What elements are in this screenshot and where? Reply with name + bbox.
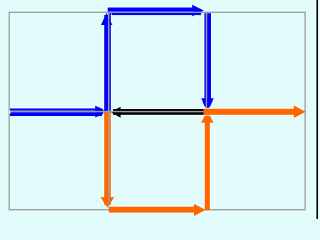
node: orange right-pointing arrowhead at far right border: [294, 105, 306, 118]
white fringe above orange mid-right band: [204, 107, 296, 110]
white fringe right of orange left-vertical thin line: [110, 118, 113, 197]
white fringe below orange bottom band: [109, 212, 194, 215]
white fringe left of orange left-vertical thick line: [102, 112, 105, 197]
white fringe above blue left-entry thin line: [10, 107, 97, 110]
wire: blue left vertical arrow (thick line left of grid): [104, 15, 108, 111]
wire: black shared-edge arrow upper line: [113, 109, 205, 111]
wire: blue top edge arrow (thick line above grid): [108, 8, 193, 12]
white fringe right of orange right-vertical bar: [209, 123, 212, 208]
wire: black shared-edge arrow lower line: [113, 112, 205, 115]
white fringe below orange mid-right band: [204, 114, 296, 117]
white fringe below black lower line: [120, 114, 205, 117]
white fringe right of blue left-vertical thin line: [110, 13, 113, 105]
wire: orange left vertical arrow (thin line right of grid): [109, 112, 111, 205]
node: black left-pointing arrowhead at center junction: [111, 107, 121, 118]
wire: blue right vertical arrow (thick line right of grid): [207, 13, 211, 99]
white fringe above black upper line: [120, 107, 205, 110]
white fringe right of blue right-vertical thick line: [210, 13, 213, 98]
node: blue up-pointing arrowhead at top-left: [101, 13, 113, 25]
wire: blue arrow entering from left along middle line (thin top line): [10, 108, 102, 110]
wire: blue arrow entering from left (thick bottom line): [10, 112, 102, 116]
node: orange right-pointing arrowhead at bottom-right: [194, 204, 206, 216]
node: orange down-pointing arrowhead at bottom-left: [100, 197, 114, 208]
wire: orange right vertical arrow (solid bar): [205, 113, 210, 211]
grid: mid-right vertical gray line (upper segment): [205, 12, 207, 111]
node: blue down-pointing arrowhead at middle-right junction: [201, 98, 213, 110]
white fringe below blue top thin line: [109, 14, 197, 17]
white fringe left of blue right-vertical thin line: [203, 13, 206, 98]
grid: outer gray border rectangle: [9, 12, 305, 209]
white fringe above blue top thick line: [108, 6, 193, 9]
wire: white sliver before right edge bar: [315, 0, 316, 219]
node: blue right-pointing arrowhead at top-right: [192, 5, 204, 17]
white fringe left of blue left-vertical thick line: [102, 25, 105, 111]
grid: middle horizontal gray line: [9, 111, 306, 113]
node: blue right-pointing arrowhead at center junction: [95, 106, 109, 118]
wire: orange arrow exiting right along middle line (solid band): [204, 109, 300, 115]
wire: orange bottom edge arrow (solid band): [109, 207, 195, 213]
wire: orange left vertical arrow (thick line left of grid): [104, 112, 108, 205]
wire: blue right vertical arrow (thin line left of grid): [204, 13, 206, 99]
node: orange up-pointing arrowhead at middle-right junction: [201, 111, 213, 123]
wire: blue left vertical arrow (thin line right of grid): [109, 13, 111, 111]
white fringe above orange bottom band: [109, 205, 194, 208]
grid: mid-left vertical gray line: [108, 12, 110, 207]
node: pale yellow speck where blue tail meets left border: [9, 111, 11, 114]
wire: black bar at right image edge: [316, 0, 318, 219]
white fringe left of orange right-vertical bar: [203, 123, 206, 209]
white fringe below blue left-entry thick line: [10, 115, 97, 118]
wire: blue top edge arrow (thin line below grid): [109, 13, 201, 15]
